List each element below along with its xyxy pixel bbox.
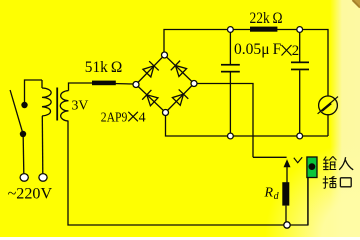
capacitor C2 plates [291,62,309,71]
svg-text:3V: 3V [72,98,89,113]
transformer T1 primary lead [41,80,43,88]
capacitor C2 top lead [299,31,301,62]
transformer T1 primary winding [42,88,51,116]
svg-text:51k Ω: 51k Ω [85,59,123,76]
capacitor C1 plates [221,64,240,73]
label 入 (ru) strokes [339,157,353,170]
switch blade (open) [10,90,23,134]
jack spring contact V mark [294,157,302,163]
meter M (galvanometer circle) [319,96,338,115]
svg-text:R: R [264,186,274,201]
resistor R 22k (filled bar on top bus) [250,27,277,32]
svg-text:22k Ω: 22k Ω [250,10,283,27]
svg-text:2AP9: 2AP9 [101,110,128,125]
label 2AP9x4 [101,110,146,125]
transformer T1 secondary winding [60,91,68,121]
switch S top lead [25,80,43,102]
capacitor C1 bottom lead [229,73,231,135]
terminal circle right (~220V) [39,174,47,182]
meter needle [318,97,338,114]
svg-text:0.05μ F: 0.05μ F [234,41,281,58]
diode D3 (bottom node to left node) [142,90,159,107]
Rd bottom lead [285,206,287,224]
input jack (green socket) [307,157,317,178]
svg-text:4: 4 [139,110,146,125]
wire: top bus from bridge top corner to meter corner [164,30,328,97]
bridge node top [162,52,168,58]
capacitor C1 top lead [229,31,231,64]
node on bottom bus [284,222,290,228]
wire: bridge right node to x=253 then down to probe lead [197,84,253,158]
label 插口 (cha kou - socket) hand-drawn strokes [323,176,351,188]
wire: probe branch horizontal [253,156,287,158]
svg-text:~220V: ~220V [8,185,53,202]
label 0.05uFx2 [234,41,299,59]
transformer T1 core [56,88,58,121]
diode D2 (right node to top node) [171,61,188,78]
capacitor C2 bottom lead [299,70,301,134]
label 输入 (shu ru - input) hand-drawn strokes [323,156,336,169]
node on bus A (left, x=230) [228,133,234,139]
wire: bottom bus [68,121,308,225]
resistor Rd (vertical filled bar) [282,182,289,205]
node on top bus (left, x=230) [228,27,234,33]
switch lower contact dot [20,131,26,137]
jack center dot [309,163,316,170]
bridge node right [191,81,197,87]
terminal circle left (~220V) [20,174,28,182]
probe plug arrow (points up at jack) [284,159,291,167]
wire secondary to 51k resistor [92,83,133,84]
wire: bus A (lower bus y=136) from bridge bottom to meter bottom [166,115,329,136]
transformer T1 primary bottom lead [41,116,44,173]
resistor 51k (filled bar) [92,81,116,86]
diode bridge edges [136,55,194,113]
bridge node bottom [163,110,169,116]
svg-text:d: d [274,191,280,202]
node on bus A (right, x=300) [297,133,303,139]
switch fixed contact dot [21,102,27,108]
switch lower lead to terminal [22,137,25,173]
node on top bus (right, x=300) [297,27,303,33]
meter bottom lead [327,114,329,136]
svg-text:2: 2 [292,43,299,59]
label Rd [264,186,280,203]
diode D4 (bottom node to right node) [172,89,189,106]
multiplication cross of 0.05uFx2 [282,45,292,56]
jack bottom lead [307,178,309,226]
page corner fold mark (top right) [354,0,360,7]
transformer T1 secondary top lead [69,83,93,91]
bridge node left [133,82,139,88]
diode D1 (lower-left to top node) [142,61,159,78]
multiplication cross of 2AP9x4 [128,112,138,122]
probe arrow stem down to Rd [286,167,288,183]
